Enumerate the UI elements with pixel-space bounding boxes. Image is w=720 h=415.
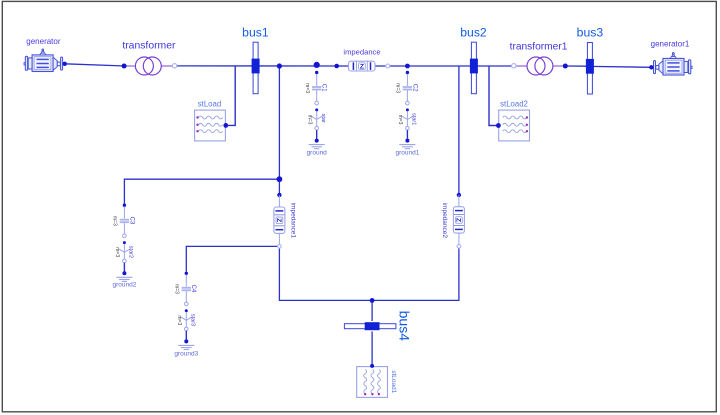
- wire stLoad to line: [226, 66, 236, 125]
- svg-text:m=3: m=3: [174, 284, 180, 294]
- wire impedance left stub: [337, 65, 349, 67]
- stLoad1 box (rotated): [357, 367, 388, 398]
- generator G2 icon (mirrored): [654, 53, 693, 76]
- svg-text:impedance1: impedance1: [289, 203, 296, 239]
- svg-text:star1: star1: [411, 113, 417, 125]
- svg-text:star2: star2: [128, 246, 134, 258]
- impedance icon: [349, 61, 376, 71]
- impedance2 bottom pin circle: [457, 245, 461, 249]
- svg-text:stLoad1: stLoad1: [390, 370, 397, 394]
- impedance1 icon (vertical): [274, 195, 285, 246]
- wire bus4 stub up: [371, 300, 373, 321]
- wire stLoad2 to line: [489, 66, 498, 126]
- generator1 pin dot: [649, 65, 653, 69]
- wire impedance1 to C4 branch: [186, 246, 278, 271]
- transformer1 icon: [516, 65, 527, 67]
- svg-text:m=3: m=3: [306, 115, 312, 125]
- wire transformer to bus1 to impedance: [177, 65, 337, 67]
- wire generator to transformer: [65, 64, 122, 66]
- node junction C3 wire: [277, 176, 283, 182]
- transformer icon: [127, 65, 136, 67]
- generator G1 icon: [24, 49, 63, 72]
- svg-text:impedance2: impedance2: [441, 203, 448, 239]
- node junction C2 branch: [405, 64, 410, 69]
- svg-text:bus2: bus2: [460, 25, 487, 39]
- wire junction to C3 branch: [124, 179, 279, 203]
- stLoad2 pin dot: [496, 123, 501, 128]
- capacitor C3 + star2 + ground2 branch: [116, 204, 132, 282]
- bus2: [470, 42, 478, 93]
- generator pin dot: [62, 62, 66, 66]
- stLoad1 pin dot: [370, 364, 374, 368]
- transformer1 right pin dot: [563, 64, 568, 69]
- svg-text:bus1: bus1: [242, 25, 269, 39]
- svg-text:C3: C3: [128, 217, 134, 225]
- transformer right pin circle: [172, 64, 176, 68]
- svg-text:m=3: m=3: [395, 83, 401, 93]
- svg-text:Z: Z: [360, 64, 364, 71]
- impedance left pin dot: [334, 64, 339, 69]
- impedance right pin circle: [386, 64, 390, 68]
- svg-text:stLoad2: stLoad2: [500, 99, 528, 108]
- transformer left pin dot: [122, 64, 127, 69]
- svg-text:stLoad: stLoad: [198, 99, 221, 108]
- wire bus3 to generator1: [590, 65, 652, 68]
- svg-text:C4: C4: [190, 285, 196, 293]
- node junction bus4 line: [370, 298, 375, 303]
- capacitor C1 + star + ground branch: [309, 71, 325, 149]
- svg-text:generator: generator: [26, 37, 61, 46]
- impedance2 top pin dot: [457, 193, 461, 197]
- impedance1 bottom pin circle: [278, 245, 282, 249]
- wire bus1 down to impedance1: [278, 66, 280, 193]
- wire impedance to bus2: [375, 65, 512, 67]
- svg-text:ground1: ground1: [395, 150, 419, 157]
- capacitor C4 + star3 + ground3 branch: [178, 272, 194, 350]
- svg-text:star: star: [320, 114, 326, 123]
- svg-text:star3: star3: [190, 314, 196, 326]
- svg-text:ground: ground: [307, 150, 328, 157]
- impedance1 top pin dot: [277, 193, 281, 197]
- svg-text:ground3: ground3: [174, 350, 198, 357]
- svg-text:ground2: ground2: [112, 281, 136, 288]
- svg-text:m=3: m=3: [114, 247, 120, 257]
- stLoad box: [195, 110, 226, 141]
- svg-text:m=3: m=3: [397, 115, 403, 125]
- node junction C1 branch: [314, 62, 320, 68]
- capacitor C2 + star1 + ground1 branch: [399, 71, 415, 149]
- wire bus2 down to impedance2: [458, 66, 460, 193]
- wire transformer1 to bus3: [565, 65, 590, 67]
- stLoad pin dot: [223, 123, 228, 128]
- wire bus4 to stLoad1: [371, 331, 373, 366]
- bus1: [252, 42, 260, 93]
- svg-text:m=3: m=3: [176, 315, 182, 325]
- svg-text:C2: C2: [411, 84, 417, 92]
- svg-text:C1: C1: [321, 84, 327, 92]
- svg-text:transformer1: transformer1: [510, 41, 568, 52]
- impedance2 icon (vertical): [453, 195, 464, 246]
- transformer1 left pin circle: [512, 64, 516, 68]
- svg-text:m=3: m=3: [304, 83, 310, 93]
- svg-text:bus4: bus4: [397, 311, 413, 342]
- bus3: [586, 43, 594, 94]
- svg-text:transformer: transformer: [122, 40, 176, 51]
- wire impedance1 down to bus4 line: [279, 248, 459, 300]
- stLoad2 box: [499, 110, 530, 141]
- svg-text:bus3: bus3: [577, 25, 604, 39]
- svg-text:impedance: impedance: [343, 47, 380, 56]
- svg-text:generator1: generator1: [651, 39, 690, 48]
- node junction bus1-right: [277, 63, 282, 68]
- bus4 (horizontal): [344, 322, 396, 330]
- svg-text:m=3: m=3: [112, 216, 118, 226]
